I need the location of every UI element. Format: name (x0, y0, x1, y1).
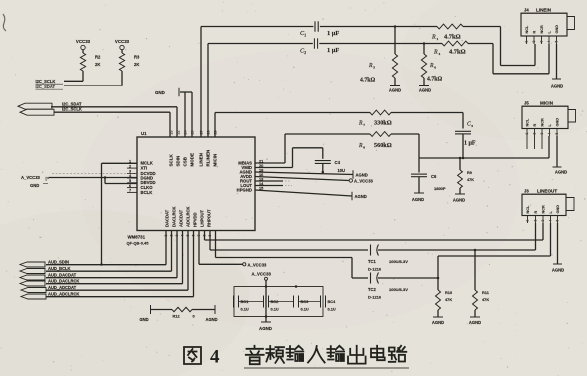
ground AGND (R9) (453, 188, 465, 203)
caption figure 4 (184, 346, 406, 368)
connector J3 LINEOUT header (522, 189, 566, 195)
svg-text:QF-QB-0.45: QF-QB-0.45 (127, 241, 150, 246)
svg-text:J3: J3 (524, 189, 529, 194)
net label AUD_BCLK (48, 266, 96, 271)
svg-text:5: 5 (555, 133, 559, 135)
wire R3 bottom to I2C_SDAT (64, 71, 122, 86)
svg-text:47K: 47K (482, 297, 489, 302)
svg-text:3: 3 (129, 170, 131, 174)
resistor R3 (119, 53, 140, 71)
svg-text:R11: R11 (482, 290, 490, 295)
svg-text:R12: R12 (173, 314, 181, 319)
capacitor TC1 (368, 245, 408, 272)
svg-text:DACLRCK: DACLRCK (172, 207, 177, 227)
net label AUD_ADCLRCK (48, 292, 96, 297)
wire C4 bottom (322, 163, 325, 173)
J5 pin labels (526, 118, 560, 127)
svg-text:J4: J4 (524, 8, 529, 13)
svg-text:AUD_DACLRCK: AUD_DACLRCK (48, 279, 79, 284)
svg-text:1800P: 1800P (434, 186, 446, 191)
wire HPVDD to A_VCC33 (199, 231, 267, 268)
svg-text:BC1: BC1 (241, 299, 250, 304)
svg-text:1: 1 (525, 133, 529, 135)
U1 part label WM8731 (127, 235, 150, 246)
wire VMID to C4 (255, 148, 323, 168)
svg-text:5: 5 (556, 220, 560, 222)
svg-text:6: 6 (434, 65, 436, 69)
svg-text:WM8731: WM8731 (128, 235, 146, 240)
svg-text:25: 25 (190, 131, 194, 135)
wire AUD_BCLK (46, 231, 172, 272)
svg-text:BC4: BC4 (328, 299, 337, 304)
svg-text:1: 1 (304, 33, 306, 37)
wire RLINEIN riser (207, 44, 209, 138)
svg-text:2: 2 (129, 164, 131, 168)
wire R7 to C3 (391, 113, 463, 129)
svg-text:47K: 47K (467, 178, 474, 182)
svg-text:SCLK: SCLK (169, 154, 174, 167)
wire LOUT stub (255, 185, 292, 187)
svg-text:4: 4 (548, 133, 552, 135)
wire GND to MODE (180, 92, 192, 137)
svg-text:3: 3 (540, 133, 544, 135)
svg-text:100U/6.3V: 100U/6.3V (389, 287, 408, 292)
J3 pin labels (526, 205, 560, 214)
svg-text:TC2: TC2 (368, 287, 376, 292)
svg-text:4.7kΩ: 4.7kΩ (444, 34, 461, 41)
svg-text:GND: GND (140, 317, 149, 322)
svg-text:NCR: NCR (541, 118, 545, 126)
U1 left pin stubs 1-7 (127, 160, 137, 193)
svg-text:RHPOUT: RHPOUT (207, 209, 212, 227)
svg-text:R: R (534, 211, 538, 214)
svg-text:4: 4 (439, 52, 441, 56)
svg-text:AUD_ADCDAT: AUD_ADCDAT (48, 285, 77, 290)
svg-text:AGND: AGND (555, 170, 567, 175)
net label AUD_ADCDAT (48, 285, 96, 290)
svg-text:0: 0 (193, 314, 195, 319)
svg-text:1: 1 (437, 37, 439, 41)
svg-text:R: R (358, 143, 363, 149)
svg-text:R9: R9 (467, 171, 472, 175)
svg-text:GND: GND (155, 90, 165, 95)
svg-text:AGND: AGND (552, 268, 564, 273)
svg-text:4: 4 (210, 347, 220, 368)
svg-text:A_VCC33: A_VCC33 (21, 175, 41, 180)
wire R8 corner to mic bus (391, 134, 419, 158)
power VCC33 (R3) (115, 39, 130, 53)
svg-text:I2C_SCLK: I2C_SCLK (62, 107, 82, 112)
svg-text:U1: U1 (141, 131, 147, 136)
ground AGND label (R12) (206, 317, 218, 322)
capacitor C3 (455, 122, 476, 147)
svg-text:LHPOUT: LHPOUT (200, 210, 205, 227)
svg-text:AGND: AGND (356, 173, 368, 178)
resistor R1 (431, 24, 463, 41)
connector J4 LINEIN header (521, 8, 567, 14)
svg-text:2K: 2K (95, 62, 100, 67)
U1 top pin numbers (169, 131, 217, 135)
wire MICIN riser (215, 113, 370, 138)
net label I2C_SDAT (bus) (62, 102, 82, 107)
svg-text:AGND: AGND (206, 317, 218, 322)
svg-text:BCLK: BCLK (141, 190, 154, 195)
wire-entry arrow AUD_BCLK (20, 269, 45, 274)
svg-text:24: 24 (183, 131, 187, 135)
svg-text:1: 1 (525, 41, 529, 43)
svg-text:A_VCC33: A_VCC33 (252, 271, 272, 276)
svg-text:2: 2 (534, 220, 538, 222)
connector J5 MICIN body (522, 106, 576, 128)
svg-text:7: 7 (363, 123, 365, 127)
ground AGND (R11) (469, 310, 481, 325)
svg-text:4: 4 (547, 41, 551, 43)
U1 left pin labels (141, 161, 156, 195)
J4 pin labels (525, 25, 559, 34)
ground GND label (left) (30, 183, 48, 188)
svg-text:4.7kΩ: 4.7kΩ (427, 77, 442, 83)
svg-text:HPGND: HPGND (237, 187, 252, 192)
svg-text:8: 8 (363, 145, 365, 149)
wire TC1 to J3 (378, 223, 536, 251)
wire MBIAS to R8 (255, 134, 370, 163)
wire J3 GND pin down (552, 223, 564, 273)
svg-text:3: 3 (541, 220, 545, 222)
connector J3 LINEOUT body (522, 194, 574, 215)
net label I2C_SCLK (bus) (62, 107, 82, 112)
wire TC2 to J3 (378, 223, 551, 279)
svg-text:NCL: NCL (526, 118, 530, 126)
svg-text:1 μF: 1 μF (327, 47, 339, 54)
svg-text:AUD_SDIN: AUD_SDIN (48, 260, 69, 265)
svg-text:I2C_SDAT: I2C_SDAT (36, 84, 56, 89)
capacitor C2 (300, 38, 339, 55)
U1 right pin labels (237, 160, 253, 192)
U1 bottom pin labels (165, 207, 212, 227)
svg-text:C4: C4 (335, 160, 341, 165)
resistor R5 (360, 25, 398, 83)
wire A_VCC33 to DCVDD/DBVDD (49, 176, 138, 183)
resistor R11 (473, 250, 490, 310)
BC labels (241, 299, 337, 312)
J5 pin stubs (525, 129, 559, 150)
BC frame (234, 287, 323, 317)
capacitor C6 (411, 158, 446, 191)
ground AGND (R10) (432, 310, 444, 325)
ground AGND (C6) (412, 177, 424, 202)
svg-text:BC3: BC3 (301, 299, 310, 304)
svg-text:10U: 10U (338, 168, 346, 173)
svg-text:5: 5 (555, 41, 559, 43)
wire-entry arrow AUD_DACDAT (20, 275, 45, 280)
svg-text:4.7kΩ: 4.7kΩ (360, 78, 375, 84)
svg-text:CSB: CSB (183, 156, 188, 166)
svg-text:GND: GND (555, 25, 559, 34)
svg-text:MICIN: MICIN (540, 101, 554, 106)
wire AUD_DACDAT (46, 231, 177, 278)
wire-entry arrow AUD_SDIN (20, 262, 45, 267)
wire J5 GND pin down (553, 136, 568, 175)
wire LLINEIN riser (200, 27, 202, 138)
connector J4 LINEIN body (521, 13, 575, 36)
wire R2 bottom to I2C_SCLK (64, 71, 83, 81)
net label AUD_SDIN (48, 260, 96, 265)
svg-text:HPVDD: HPVDD (193, 212, 198, 227)
wire CSB to GND line (184, 92, 186, 137)
wire LHPOUT rail (TC2) (216, 231, 369, 279)
svg-text:TC1: TC1 (368, 259, 376, 264)
caption underline (244, 367, 409, 369)
svg-text:R: R (533, 124, 537, 127)
connector J5 MICIN header (522, 101, 568, 107)
U1 top pin labels (169, 150, 218, 167)
wire-entry arrow AUD_ADCLRCK (21, 294, 46, 299)
svg-text:R: R (431, 35, 436, 41)
svg-text:AGND: AGND (551, 84, 563, 89)
ground AGND (BC) (259, 322, 272, 331)
resistor R9 (458, 157, 475, 188)
J4 pin stubs (525, 36, 559, 44)
wire HPGND line (255, 190, 367, 200)
svg-text:R: R (433, 50, 438, 56)
wire MCLK down-left (100, 163, 137, 265)
svg-text:BC2: BC2 (271, 299, 280, 304)
svg-text:2K: 2K (134, 62, 139, 67)
svg-text:VCC33: VCC33 (76, 39, 91, 44)
svg-text:6: 6 (129, 184, 131, 188)
resistor R2 (80, 53, 101, 71)
svg-text:LINEOUT: LINEOUT (537, 189, 557, 194)
wire dashed to pin3 (52, 173, 137, 175)
svg-text:GND: GND (30, 183, 39, 188)
capacitor C4 (315, 160, 345, 173)
wire AUD_SDIN (46, 231, 166, 265)
svg-text:NCL: NCL (525, 25, 529, 33)
wire AUD_ADCLRCK (46, 231, 194, 297)
resistor R10 (436, 278, 453, 310)
wire-entry arrow I2C_SCLK (20, 109, 54, 115)
svg-text:MODE: MODE (190, 153, 195, 167)
svg-text:R10: R10 (445, 290, 452, 295)
resistor R6 (421, 42, 442, 82)
net label AUD_DACDAT (48, 273, 96, 278)
wire AUD_DACLRCK (46, 231, 183, 284)
capacitor C1 (300, 21, 339, 37)
net label I2C_SCLK (36, 79, 64, 84)
svg-text:7: 7 (129, 189, 131, 193)
svg-text:AGND: AGND (355, 194, 367, 199)
capacitor TC2 (368, 273, 408, 300)
svg-text:4: 4 (549, 220, 553, 222)
svg-text:GND: GND (556, 118, 560, 127)
svg-text:R: R (429, 63, 434, 69)
svg-text:NCR: NCR (542, 205, 546, 213)
U1 bottom pin numbers (164, 235, 212, 237)
wire linein upper rail (201, 27, 535, 66)
svg-text:R: R (533, 31, 537, 34)
svg-text:AGND: AGND (432, 320, 444, 325)
wire lineout NCR rail (205, 223, 544, 240)
wire linein lower rail (208, 44, 549, 74)
svg-text:2: 2 (304, 51, 306, 55)
ground GND label (R12) (140, 317, 149, 322)
svg-text:A_VCC33: A_VCC33 (248, 262, 268, 267)
svg-text:LINEN: LINEN (199, 153, 204, 167)
svg-text:NCL: NCL (526, 205, 530, 213)
svg-text:RLINEN: RLINEN (206, 150, 211, 167)
svg-text:1: 1 (526, 220, 530, 222)
wire BC bus (265, 280, 298, 322)
svg-text:R2: R2 (95, 55, 101, 60)
svg-text:1 μF: 1 μF (327, 30, 339, 37)
resistor R12 (151, 305, 216, 319)
svg-text:1 μF: 1 μF (464, 141, 476, 147)
svg-text:LINEIN: LINEIN (536, 8, 552, 13)
svg-text:ADCLRCK: ADCLRCK (186, 207, 191, 227)
net label AUD_DACLRCK (48, 279, 96, 284)
svg-text:SDIN: SDIN (176, 156, 181, 167)
power VCC33 (R2) (76, 39, 91, 53)
svg-text:4.7kΩ: 4.7kΩ (449, 49, 466, 56)
svg-text:C6: C6 (431, 174, 437, 179)
svg-text:AGND: AGND (419, 88, 431, 93)
svg-text:22: 22 (176, 131, 180, 135)
svg-text:0.1U: 0.1U (301, 307, 309, 312)
svg-text:23: 23 (169, 131, 173, 135)
svg-text:100U/6.3V: 100U/6.3V (389, 259, 408, 264)
wire-entry arrow AUD_DACLRCK (20, 281, 45, 286)
wire mic bus (419, 134, 549, 159)
wire AGND pin line (255, 170, 368, 178)
svg-text:GND: GND (556, 205, 560, 214)
wire-entry arrow I2C_SDAT (18, 103, 52, 109)
svg-text:3: 3 (471, 124, 473, 128)
J3 pin stubs (526, 216, 560, 224)
resistor R4 (433, 41, 468, 56)
svg-text:D-1216: D-1216 (368, 267, 382, 272)
wire AUD_ADCDAT (46, 231, 188, 291)
svg-text:NCR: NCR (540, 25, 544, 33)
svg-text:3: 3 (540, 41, 544, 43)
resistor R7 (358, 110, 392, 127)
svg-text:DACDAT: DACDAT (165, 209, 170, 227)
op-amp U1 chip body (137, 131, 255, 231)
svg-text:D-1216: D-1216 (368, 295, 382, 300)
wire AVDD to A_VCC33 (255, 177, 374, 184)
wire I2C_SDAT to SDIN (51, 107, 177, 137)
svg-text:XTI: XTI (141, 166, 148, 171)
svg-text:0.1U: 0.1U (328, 307, 336, 312)
ground GND label (155, 88, 179, 96)
svg-text:AGND: AGND (259, 326, 272, 331)
scan speck top-left (3, 14, 6, 31)
svg-text:2: 2 (533, 133, 537, 135)
svg-text:MICIN: MICIN (213, 154, 218, 167)
svg-text:AUD_DACDAT: AUD_DACDAT (48, 273, 77, 278)
wire I2C_SCLK to SCLK (54, 112, 170, 137)
svg-text:ADCDAT: ADCDAT (179, 209, 184, 227)
net label A_VCC33 (left) (21, 175, 52, 180)
svg-text:47K: 47K (445, 297, 452, 302)
net label I2C_SDAT (36, 84, 64, 89)
svg-text:2: 2 (532, 41, 536, 43)
svg-text:5: 5 (373, 65, 375, 69)
ground AGND (R6) (419, 78, 431, 93)
svg-text:R: R (358, 121, 363, 127)
wire ROUT stub (255, 180, 290, 182)
net label A_VCC33 (BC) (252, 271, 272, 280)
svg-text:R3: R3 (134, 55, 140, 60)
svg-text:330kΩ: 330kΩ (374, 120, 392, 127)
wire J4 GND pin down (551, 44, 563, 89)
svg-text:VCC33: VCC33 (115, 39, 130, 44)
wire RHPOUT rail (TC1) (210, 231, 368, 251)
svg-text:AGND: AGND (453, 198, 465, 203)
svg-text:AUD_ADCLRCK: AUD_ADCLRCK (48, 292, 79, 297)
svg-text:R: R (368, 63, 373, 69)
svg-text:5: 5 (129, 179, 131, 183)
svg-text:0.1U: 0.1U (271, 307, 279, 312)
svg-text:AUD_BCLK: AUD_BCLK (48, 266, 71, 271)
svg-text:0.1U: 0.1U (241, 307, 249, 312)
resistor R8 (358, 132, 392, 150)
svg-text:J5: J5 (524, 101, 529, 106)
svg-text:560kΩ: 560kΩ (374, 142, 392, 149)
U1 right pin numbers (259, 158, 264, 190)
svg-text:AGND: AGND (389, 88, 401, 93)
svg-text:A_VCC33: A_VCC33 (354, 179, 374, 184)
capacitors BC1-BC4 plates (234, 296, 326, 308)
svg-text:AGND: AGND (412, 197, 424, 202)
ground AGND (R5) (389, 78, 401, 93)
wire-entry arrow AUD_ADCDAT (21, 288, 46, 293)
